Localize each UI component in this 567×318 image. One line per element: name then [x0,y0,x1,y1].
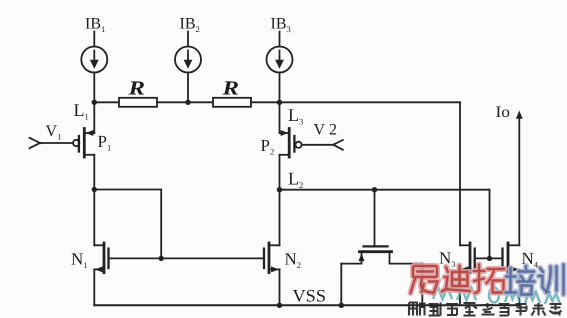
P1 gate bar [78,136,80,152]
watermark red characters [411,265,505,294]
svg-text:IB2: IB2 [180,16,200,35]
node L3 [277,100,282,105]
watermark gray slogan characters [409,303,562,316]
transistor N3 label [439,248,456,269]
svg-text:IB3: IB3 [271,16,291,35]
Q5 left leg with arrow [361,253,363,264]
svg-text:N1: N1 [71,250,88,271]
N2 drain segment [269,244,280,246]
input V1 label [46,123,62,142]
node P1 drain junction [92,187,97,192]
svg-text:R: R [221,78,239,100]
wire IB2 to rail [187,73,189,103]
P2 drain segment [280,154,289,156]
char pei [506,266,535,295]
wire IB3 label to circle [279,32,281,47]
svg-text:L2: L2 [288,169,303,191]
VSS rail [94,304,519,306]
P1 source segment with arrow [85,132,94,134]
wire IB1 to rail [93,73,95,103]
wire R1 to R2 [157,101,213,103]
watermark teal logo text [433,287,560,304]
wire P2 drain down to L2 [279,155,281,190]
node MOS-cap gate tap [372,187,377,192]
current source IB2 label [180,16,200,35]
N1 source down to VSS [93,269,95,305]
current source IB3 label [271,16,291,35]
input terminal V2 [333,140,343,150]
svg-text:P1: P1 [98,132,112,153]
N3 channel bar [469,243,472,273]
N4 gate bar [501,249,503,268]
N3 drain segment [460,244,470,246]
P2 gate bubble [295,142,301,148]
N1 drain segment [94,244,103,246]
P2 channel bar [288,129,291,158]
watermark blue characters [506,265,564,295]
svg-text:L3: L3 [288,105,303,127]
Q5 left bend to VSS [341,263,361,265]
svg-text:P2: P2 [261,136,275,157]
node L1 [92,100,97,105]
P2 source segment with arrow [280,132,289,134]
char di [442,266,470,292]
N2 source segment with arrow [269,268,280,270]
resistor R2 [213,98,251,107]
wire junction to the right [94,189,161,191]
transistor N2 label [285,250,302,271]
wire right corner down to N3 drain [459,102,461,245]
wire top rail L1 to R1 [94,101,119,103]
wire junction down to N1 drain [93,190,95,246]
transistor N3 [460,243,475,305]
N2 gate bar [263,249,265,268]
svg-text:VSS: VSS [293,286,327,306]
N4 channel bar [507,243,510,273]
output Io arrow [516,111,523,246]
N3 gate bar [474,249,476,268]
wire down to N3 N4 gates [489,190,491,259]
Q5 gate bar [364,245,388,247]
node at IB2 [185,100,190,105]
char tuo [474,265,505,294]
Q5 channel bar [360,250,392,253]
N1 channel bar [103,243,106,273]
wire L3 to P2 source [279,102,281,133]
node N2 source on VSS [277,303,282,308]
transistor P2 label [261,136,275,157]
wire down to N1 gate bus [160,190,162,259]
wire IB3 to rail [279,73,281,103]
N2 channel bar [268,243,271,273]
net VSS label [293,286,327,306]
N3 source segment with arrow [460,268,470,270]
Q5 right leg [389,253,391,264]
N1 gate bar [107,249,109,268]
transistor P1 label [98,132,112,153]
char xun [539,265,564,295]
node Q5 right on VSS [420,303,425,308]
N4 drain segment [508,244,519,246]
Q5 right bend to VSS [390,263,423,265]
node on gate bus [159,256,164,261]
P1 drain segment [85,154,94,156]
wire L2 down to N2 drain [279,190,281,246]
wire R2 to L3 and to right corner [251,101,460,103]
MOS capacitor Q5 [341,190,422,306]
wire L1 to P1 source [93,102,95,133]
input terminal V1 [30,138,41,148]
wire P2 gate to V2 [302,144,334,146]
transistor N1 label [71,250,88,271]
transistor N4 label [522,249,539,270]
N4 source down to VSS [518,269,520,305]
transistor N1 [94,243,108,305]
wire gate bus N1 to N2 [109,257,265,259]
transistor N2 [264,243,280,305]
node Q5 left on VSS [339,303,344,308]
transistor P2 [280,129,302,158]
svg-text:L1: L1 [74,100,89,122]
current source IB1 [81,47,107,73]
N2 source down to VSS [279,269,281,305]
wire L2 to right [280,189,490,191]
N3 source down to VSS [459,269,461,305]
N4 source segment with arrow [508,268,519,270]
svg-text:R: R [127,78,145,100]
Q5 gate lead [374,190,376,246]
node N3 N4 gate junction [487,256,492,261]
current source IB2 [175,47,201,73]
node L2 [277,187,282,192]
P1 channel bar [83,129,86,158]
resistor R1 value label [127,78,145,100]
svg-text:V2: V2 [314,122,338,139]
current source IB3 [267,47,293,73]
resistor R1 [119,98,157,107]
current source IB1 label [85,16,105,35]
svg-text:V1: V1 [46,123,62,142]
wire P1 drain down [93,155,95,190]
svg-text:Io: Io [496,104,511,121]
output Io label [496,104,511,121]
transistor P1 [73,129,94,158]
wire gate bus N3 to N4 [475,257,503,259]
N1 source segment with arrow [94,268,103,270]
svg-text:N2: N2 [285,250,302,271]
char yi [411,266,438,294]
transistor N4 [503,243,520,305]
wire IB2 label to circle [187,32,189,47]
P2 gate bar [293,136,295,152]
wire IB1 label to circle [93,32,95,47]
input V2 label [314,122,338,139]
P1 gate bubble [73,140,79,146]
wire V1 to P1 gate [40,142,73,144]
resistor R2 value label [221,78,239,100]
